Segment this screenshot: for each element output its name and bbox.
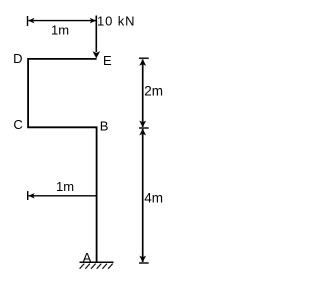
top dimension 1m: extension tick left: [27, 16, 29, 26]
right dimension: top arrowhead up: [139, 59, 146, 66]
top dimension 1m: right arrowhead: [90, 18, 96, 24]
middle dimension 1m: dimension line: [28, 195, 96, 197]
svg-text:1m: 1m: [56, 179, 74, 194]
svg-text:4m: 4m: [144, 191, 163, 206]
frame members A-B-C-D-E: [28, 59, 97, 262]
right dimension line: top tick: [139, 57, 149, 59]
right dimension line: 4m segment: [142, 129, 144, 262]
svg-text:10 kN: 10 kN: [97, 13, 135, 28]
svg-text:2m: 2m: [144, 83, 163, 98]
load arrowhead down at E: [93, 51, 101, 58]
svg-text:B: B: [100, 118, 109, 133]
svg-text:D: D: [13, 51, 22, 66]
ground hatching: [80, 264, 113, 269]
ground line at support A: [80, 261, 114, 263]
svg-text:1m: 1m: [51, 22, 69, 37]
right dimension line: 2m segment: [142, 60, 144, 128]
top dimension 1m: dimension line: [28, 20, 96, 22]
svg-text:C: C: [13, 117, 22, 132]
right dimension: middle arrowhead down: [139, 121, 146, 128]
top dimension 1m: left arrowhead: [28, 18, 34, 24]
right dimension: middle tick: [139, 127, 149, 129]
middle dimension 1m: extension tick left: [27, 191, 29, 200]
right dimension: middle arrowhead up: [139, 129, 146, 136]
middle dimension 1m: left arrowhead: [28, 193, 34, 199]
svg-text:E: E: [103, 53, 112, 68]
right dimension: bottom tick: [139, 262, 149, 264]
load line 10 kN: [95, 16, 97, 53]
right dimension: bottom arrowhead down: [139, 256, 146, 263]
